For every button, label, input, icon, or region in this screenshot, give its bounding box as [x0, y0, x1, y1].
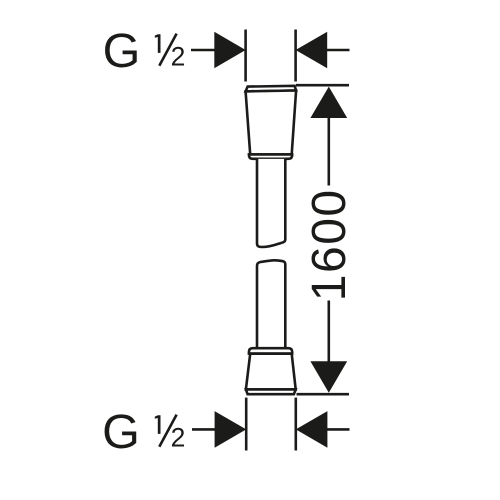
top connector bottom rim [249, 154, 292, 158]
bottom fraction slash [159, 415, 176, 447]
svg-text:2: 2 [171, 422, 186, 452]
bottom dimension line left tail [192, 428, 216, 431]
bottom connector top collar [249, 348, 292, 353]
bottom extension line right [294, 398, 297, 451]
svg-text:G: G [103, 24, 141, 78]
bottom dimension arrow left-pointing [296, 411, 328, 448]
top extension line left [244, 30, 247, 82]
svg-text:G: G [102, 405, 140, 459]
bottom connector cone body [246, 354, 296, 390]
vertical dimension top extension line [296, 84, 349, 87]
bottom fraction numerator 1 [155, 415, 161, 434]
vertical dimension arrow up-pointing [310, 87, 347, 118]
hose lower segment [257, 260, 285, 348]
bottom dimension line right tail [326, 428, 350, 431]
top fraction numerator 1 [155, 34, 161, 53]
top dimension arrow left-pointing [296, 32, 328, 69]
top dimension line right tail [326, 49, 350, 52]
hose upper segment [257, 159, 285, 247]
vertical dimension bottom extension line [297, 393, 350, 396]
top dimension line left tail [191, 49, 216, 52]
svg-text:2: 2 [171, 41, 186, 71]
vertical dimension line upper segment [327, 117, 330, 186]
top fraction slash [159, 34, 176, 66]
bottom extension line left [245, 398, 248, 451]
vertical dimension line lower segment [327, 301, 330, 363]
top connector cone body [246, 91, 297, 155]
top extension line right [294, 30, 297, 82]
top dimension arrow right-pointing [214, 32, 245, 69]
svg-text:1600: 1600 [303, 188, 356, 301]
vertical dimension arrow down-pointing [310, 361, 347, 393]
top connector nut top face [246, 86, 297, 92]
bottom connector bottom face [246, 389, 296, 394]
bottom dimension arrow right-pointing [215, 411, 247, 448]
